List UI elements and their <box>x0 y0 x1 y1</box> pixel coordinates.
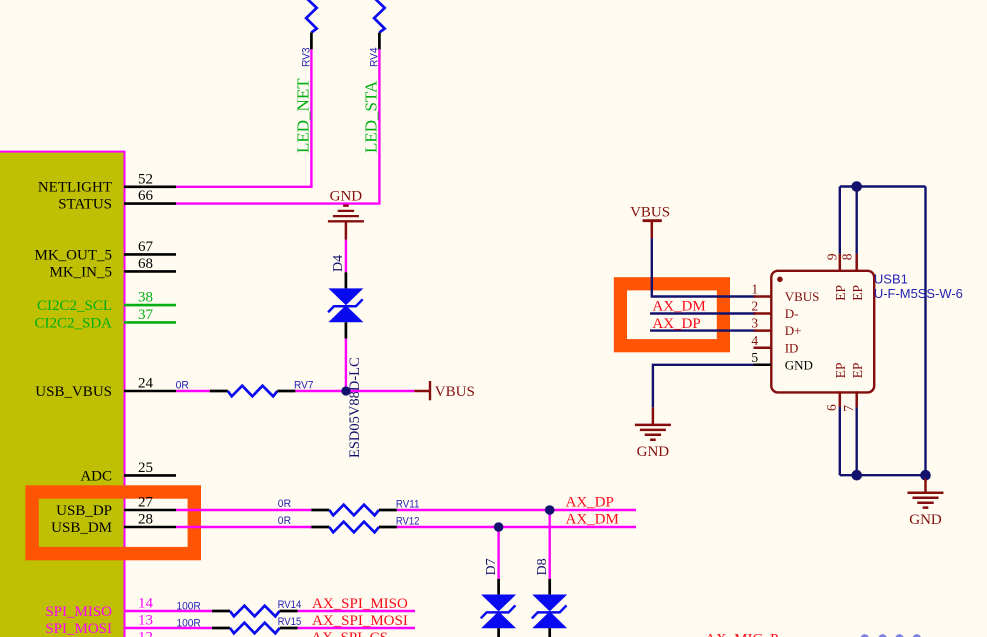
svg-text:100R: 100R <box>176 600 200 612</box>
svg-text:100R: 100R <box>176 617 200 629</box>
svg-text:0R: 0R <box>176 379 189 391</box>
svg-text:LED_STA: LED_STA <box>362 80 381 153</box>
svg-text:7: 7 <box>841 405 856 412</box>
svg-text:MK_IN_5: MK_IN_5 <box>50 264 113 280</box>
highlight box around AX_DM/AX_DP net labels <box>620 284 723 346</box>
svg-text:D8: D8 <box>535 558 550 575</box>
svg-text:U-F-M5SS-W-6: U-F-M5SS-W-6 <box>874 286 963 301</box>
svg-text:0R: 0R <box>278 515 291 527</box>
pin 25 ADC <box>124 474 176 477</box>
resistor RV12 <box>311 526 329 529</box>
power port GND (bottom right) <box>924 479 927 493</box>
svg-text:LED_NET: LED_NET <box>294 78 313 153</box>
pin 4 ID <box>754 347 772 350</box>
svg-text:MK_OUT_5: MK_OUT_5 <box>35 247 113 263</box>
svg-text:38: 38 <box>138 290 153 306</box>
svg-text:AX_SPI_MOSI: AX_SPI_MOSI <box>312 613 408 629</box>
wire bottom rail <box>840 474 926 476</box>
pin 14 SPI_MISO <box>124 610 176 613</box>
blue pads (bottom edge, partially visible) <box>860 634 869 637</box>
resistor RV4 <box>374 0 385 32</box>
pin 8 EP <box>855 254 858 271</box>
svg-text:6: 6 <box>824 404 839 411</box>
svg-text:USB1: USB1 <box>874 272 908 287</box>
wire top rail <box>840 185 926 187</box>
diode D8 (TVS) <box>548 579 551 595</box>
svg-text:VBUS: VBUS <box>630 205 670 221</box>
svg-text:24: 24 <box>138 376 154 392</box>
wire RV7 to VBUS <box>295 390 414 392</box>
wire right vertical <box>924 187 926 476</box>
pin 66 STATUS <box>124 202 176 205</box>
svg-text:NETLIGHT: NETLIGHT <box>38 180 112 196</box>
svg-text:RV15: RV15 <box>278 616 302 628</box>
wire D4 to VBUS net <box>345 339 347 392</box>
svg-text:66: 66 <box>138 188 154 204</box>
wire pin28 to RV12 <box>176 526 311 528</box>
resistor RV3 <box>306 0 317 32</box>
highlight box around USB_DP/USB_DM pins <box>32 492 194 554</box>
junction bottom rail/pin7 <box>851 470 862 481</box>
svg-text:GND: GND <box>909 512 942 528</box>
pin 38 CI2C2_SCL <box>124 304 176 307</box>
svg-text:USB_VBUS: USB_VBUS <box>35 384 112 400</box>
svg-text:AX_SPI_CS: AX_SPI_CS <box>311 630 388 637</box>
pin 1 VBUS <box>754 295 772 298</box>
wire NETLIGHT net <box>176 49 311 187</box>
svg-text:25: 25 <box>138 460 153 476</box>
wire AX_DP to D8 <box>549 510 551 579</box>
svg-text:RV3: RV3 <box>301 48 313 68</box>
part marker dot <box>777 277 783 283</box>
svg-text:2: 2 <box>751 299 758 314</box>
pin 2 D- <box>754 312 772 315</box>
svg-text:3: 3 <box>751 316 758 331</box>
wire AX_DM to pin2 <box>650 312 756 314</box>
svg-text:STATUS: STATUS <box>58 197 112 213</box>
svg-text:1: 1 <box>751 282 758 297</box>
pin 27 USB_DP <box>124 509 176 512</box>
connector USB1 body <box>771 271 874 393</box>
svg-text:D-: D- <box>785 306 799 321</box>
svg-text:ESD05V88D-LC: ESD05V88D-LC <box>347 357 363 458</box>
svg-text:EP: EP <box>833 285 848 301</box>
svg-text:4: 4 <box>751 333 758 348</box>
wire RV15 to AX_SPI_MOSI <box>298 627 415 629</box>
pin 13 SPI_MOSI <box>124 627 176 630</box>
svg-text:RV7: RV7 <box>294 380 314 392</box>
svg-text:EP: EP <box>850 362 865 378</box>
wire pin5 to GND <box>653 365 755 408</box>
svg-text:D7: D7 <box>484 558 499 575</box>
svg-text:AX_DM: AX_DM <box>652 299 705 315</box>
svg-text:AX_DM: AX_DM <box>566 511 619 527</box>
wire RV14 to AX_SPI_MISO <box>298 610 415 612</box>
svg-text:USB_DM: USB_DM <box>51 520 112 536</box>
wire pin9 up <box>839 187 841 254</box>
svg-text:AX_DP: AX_DP <box>652 316 700 332</box>
svg-text:CI2C2_SCL: CI2C2_SCL <box>37 298 112 314</box>
svg-text:AX_SPI_MISO: AX_SPI_MISO <box>312 596 408 612</box>
resistor RV15 <box>212 627 230 630</box>
pin 37 CI2C2_SDA <box>124 321 176 324</box>
junction D4/VBUS <box>341 386 350 395</box>
svg-text:27: 27 <box>138 495 154 511</box>
wire pin7 down <box>856 408 858 476</box>
wire SPI row to RV15 <box>176 627 212 629</box>
svg-text:USB_DP: USB_DP <box>56 503 112 519</box>
svg-text:D4: D4 <box>331 255 346 272</box>
junction bottom rail/GND <box>920 470 931 481</box>
svg-text:67: 67 <box>138 239 154 255</box>
wire pin8 up <box>856 187 858 254</box>
wire AX_DM to D7 <box>497 527 499 579</box>
wire pin6 down <box>839 407 841 475</box>
svg-text:AX_DP: AX_DP <box>566 494 614 510</box>
wire AX_DP to pin3 <box>650 329 756 331</box>
wire STATUS net <box>176 49 379 203</box>
wire SPI row to RV14 <box>176 610 212 612</box>
svg-text:AX_MIC_P: AX_MIC_P <box>705 631 778 637</box>
svg-text:52: 52 <box>138 171 153 187</box>
wire RV11 to AX_DP <box>397 509 636 511</box>
diode D4 (TVS) <box>345 272 348 288</box>
svg-text:ADC: ADC <box>80 468 112 484</box>
junction AX_DM/D7 <box>494 522 504 532</box>
IC module block U (left, olive) <box>0 152 125 637</box>
pin 9 EP <box>839 254 842 271</box>
svg-text:VBUS: VBUS <box>435 384 475 400</box>
pin 5 GND <box>754 364 772 367</box>
wire pin24 to RV7 <box>176 390 210 392</box>
resistor RV11 <box>311 509 329 512</box>
svg-text:VBUS: VBUS <box>785 289 820 304</box>
pin 52 NETLIGHT <box>124 186 176 189</box>
svg-text:37: 37 <box>138 307 154 323</box>
svg-text:9: 9 <box>825 253 840 260</box>
power port GND (above D4) <box>345 221 348 240</box>
svg-text:GND: GND <box>330 189 363 205</box>
svg-text:ID: ID <box>785 340 799 355</box>
wire GND to D4 <box>345 240 347 272</box>
svg-text:28: 28 <box>138 512 153 528</box>
wire VBUS to pin1 <box>652 238 756 296</box>
junction AX_DP/D8 <box>545 505 555 515</box>
pin 7 EP <box>855 391 858 407</box>
svg-text:EP: EP <box>833 362 848 378</box>
svg-text:GND: GND <box>637 444 670 460</box>
diode D7 (TVS) <box>497 579 500 595</box>
svg-text:0R: 0R <box>278 498 291 510</box>
svg-text:EP: EP <box>850 285 865 301</box>
svg-text:14: 14 <box>138 596 154 612</box>
pin 67 MK_OUT_5 <box>124 253 176 256</box>
power port VBUS (right of RV7) <box>414 390 430 393</box>
svg-text:CI2C2_SDA: CI2C2_SDA <box>34 315 112 331</box>
pin 28 USB_DM <box>124 526 176 529</box>
svg-text:5: 5 <box>751 350 758 365</box>
svg-text:12: 12 <box>138 630 153 637</box>
pin 6 EP <box>839 391 842 407</box>
pin 68 MK_IN_5 <box>124 270 176 273</box>
wire RV12 to AX_DM <box>397 526 636 528</box>
svg-text:GND: GND <box>785 357 813 372</box>
svg-text:RV14: RV14 <box>278 599 302 611</box>
resistor RV14 <box>212 610 230 613</box>
svg-text:RV4: RV4 <box>369 48 381 68</box>
pin 24 USB_VBUS <box>124 390 176 393</box>
junction top rail/pin8 <box>851 181 862 192</box>
resistor RV7 <box>210 390 228 393</box>
svg-text:13: 13 <box>138 613 153 629</box>
svg-text:D+: D+ <box>785 323 802 338</box>
svg-text:8: 8 <box>840 253 855 260</box>
power port GND (below pin5) <box>652 407 655 425</box>
wire pin27 to RV11 <box>176 509 311 511</box>
pin 3 D+ <box>754 329 772 332</box>
svg-text:SPI_MOSI: SPI_MOSI <box>45 621 112 637</box>
svg-text:68: 68 <box>138 256 153 272</box>
svg-text:SPI_MISO: SPI_MISO <box>45 604 112 620</box>
